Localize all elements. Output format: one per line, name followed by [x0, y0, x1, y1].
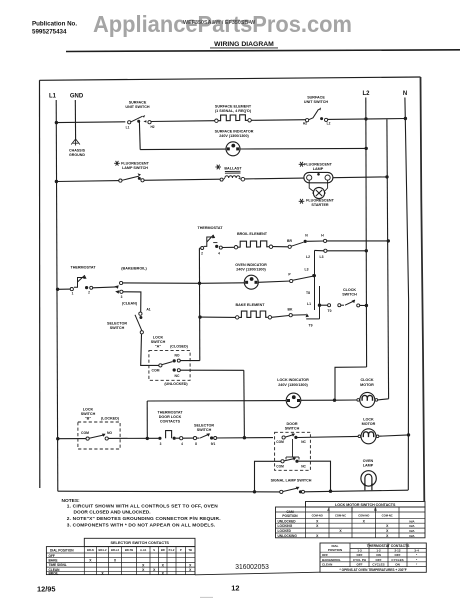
svg-text:L2: L2: [362, 91, 370, 97]
wire lock A NO to bake vertical: [180, 360, 199, 362]
clock switch contacts: [328, 304, 331, 307]
wire to clock motor: [336, 399, 357, 401]
door lock contact 8: [193, 437, 196, 440]
signal lamp switch: [280, 490, 283, 493]
svg-text:SELECTOR: SELECTOR: [107, 322, 127, 326]
svg-text:N/A: N/A: [409, 524, 415, 528]
svg-text:UNIT SWITCH: UNIT SWITCH: [125, 105, 150, 109]
svg-text:LOCK MOTOR SWITCH CONTACTS: LOCK MOTOR SWITCH CONTACTS: [335, 503, 396, 507]
svg-text:1-3: 1-3: [357, 549, 362, 553]
svg-text:OFF: OFF: [322, 553, 328, 557]
svg-text:DIAL POSITION: DIAL POSITION: [50, 548, 74, 552]
svg-text:1: 1: [72, 292, 74, 296]
wire neutral branch vertical: [387, 119, 389, 399]
svg-text:SURFACE INDICATOR: SURFACE INDICATOR: [215, 130, 254, 134]
svg-text:FLUORESCENT: FLUORESCENT: [304, 163, 332, 167]
wire clock switch line: [320, 304, 328, 306]
fluorescent lamp: [304, 172, 333, 182]
wire GND drop: [74, 100, 76, 139]
footer smudge: [200, 596, 213, 598]
door switch internal link: [292, 439, 294, 457]
selector switch blade bottom: [197, 437, 200, 439]
svg-text:BK: BK: [288, 307, 293, 311]
thermostat door lock contacts: [158, 437, 161, 440]
svg-text:BR-L2: BR-L2: [99, 548, 107, 552]
svg-text:POSITION: POSITION: [282, 514, 298, 518]
svg-text:N/A: N/A: [409, 519, 415, 523]
svg-text:BR: BR: [287, 239, 292, 243]
fluorescent starter label: [299, 200, 305, 202]
resistor surface element: [215, 119, 218, 122]
svg-text:OFF: OFF: [395, 553, 401, 557]
svg-text:BR-L3: BR-L3: [111, 548, 119, 552]
junction L1 top bus: [55, 121, 58, 124]
svg-text:L2: L2: [327, 122, 331, 126]
svg-text:NC: NC: [175, 374, 180, 378]
svg-text:THERMOSTAT: THERMOSTAT: [197, 226, 223, 230]
svg-text:SIGNAL LAMP SWITCH: SIGNAL LAMP SWITCH: [271, 479, 312, 483]
svg-text:L1: L1: [307, 302, 311, 306]
fluorescent starter: [313, 187, 324, 198]
svg-text:BROIL ELEMENT: BROIL ELEMENT: [237, 232, 268, 236]
svg-text:SWITCH: SWITCH: [110, 326, 125, 330]
svg-text:2-12: 2-12: [394, 549, 400, 553]
wire selector jumper 1: [314, 250, 316, 310]
svg-text:NO: NO: [107, 431, 112, 435]
svg-text:H2: H2: [150, 125, 154, 129]
svg-text:OVEN INDICATOR: OVEN INDICATOR: [235, 263, 267, 267]
wire door switch lower right: [299, 461, 331, 491]
svg-text:COM: COM: [81, 431, 89, 435]
ballast label: [215, 166, 221, 168]
svg-text:SURFACE ELEMENT: SURFACE ELEMENT: [215, 105, 252, 109]
svg-text:4: 4: [181, 442, 183, 446]
border frame top: [40, 77, 421, 80]
wire surface indicator line: [140, 148, 226, 151]
svg-text:T9: T9: [309, 324, 313, 328]
svg-text:12: 12: [231, 584, 239, 593]
svg-text:SWITCH: SWITCH: [197, 428, 212, 432]
svg-text:LOCK: LOCK: [153, 336, 164, 340]
svg-text:OVEN: OVEN: [363, 459, 374, 463]
table thermostat contacts: [320, 543, 426, 572]
svg-text:THERMOSTAT: THERMOSTAT: [157, 411, 183, 415]
svg-text:FLUORESCENT: FLUORESCENT: [121, 162, 149, 166]
svg-text:FLUORESCENT: FLUORESCENT: [306, 199, 334, 203]
fluorescent lamp label: [299, 163, 305, 165]
svg-text:THERMOSTAT CONTACTS: THERMOSTAT CONTACTS: [367, 544, 410, 548]
svg-text:COM-NO: COM-NO: [358, 514, 369, 518]
svg-text:N/A: N/A: [409, 529, 415, 533]
svg-text:COM: COM: [276, 465, 284, 469]
svg-text:DOOR: DOOR: [286, 422, 297, 426]
lamp surface indicator: [226, 142, 240, 156]
svg-text:ON: ON: [395, 563, 400, 567]
svg-text:* OPENS AT OVEN TEMPERATURES: * OPENS AT OVEN TEMPERATURES + 230°F: [339, 568, 406, 572]
svg-text:DOOR LOCK: DOOR LOCK: [159, 415, 182, 419]
switch surface unit 1: [128, 121, 131, 124]
svg-text:DOOR CLOSED AND UNLOCKED.: DOOR CLOSED AND UNLOCKED.: [74, 510, 151, 516]
svg-text:STARTER: STARTER: [311, 203, 328, 207]
wire thermostat2 vertical: [198, 248, 200, 360]
junction bus1 at N: [404, 117, 407, 120]
svg-text:UNLOCKING: UNLOCKING: [278, 534, 298, 538]
svg-text:MOTOR: MOTOR: [360, 383, 374, 387]
svg-text:CHASSIS: CHASSIS: [69, 149, 86, 153]
junction bake-broil tap: [115, 285, 119, 289]
door switch lower contacts: [281, 460, 284, 463]
title underline: [210, 47, 278, 49]
wire broil element line: [222, 246, 234, 248]
svg-text:CLOCK: CLOCK: [343, 288, 356, 292]
svg-text:H2: H2: [303, 122, 307, 126]
wire L2 jog to lock indicator line: [335, 367, 367, 400]
svg-text:L2: L2: [306, 255, 310, 259]
selector contact clean: [115, 290, 119, 294]
svg-text:SURFACE: SURFACE: [129, 101, 147, 105]
svg-text:3. COMPONENTS WITH * DO NOT A: 3. COMPONENTS WITH * DO NOT APPEAR ON AL…: [67, 522, 216, 528]
svg-text:COM-NC: COM-NC: [335, 514, 346, 518]
svg-text:316002053: 316002053: [235, 562, 268, 571]
svg-text:BROIL: BROIL: [49, 572, 59, 576]
svg-text:TIME SIGNL: TIME SIGNL: [49, 563, 67, 567]
door lock contact 4: [180, 437, 183, 440]
wire fluorescent bus: [56, 180, 120, 183]
svg-text:POSITION: POSITION: [328, 548, 342, 552]
svg-text:SWITCH: SWITCH: [342, 292, 357, 296]
wire broil line to neutral branch: [327, 240, 389, 242]
svg-text:LAMP: LAMP: [363, 463, 374, 467]
wire bus3 right: [123, 282, 200, 284]
lock switch B contacts: [86, 437, 89, 440]
inductor ballast: [220, 178, 223, 181]
svg-text:N: N: [403, 91, 407, 97]
svg-text:BALLAST: BALLAST: [224, 167, 242, 171]
svg-text:L3: L3: [320, 255, 324, 259]
switch surface unit 2: [306, 119, 309, 122]
svg-text:NC: NC: [301, 465, 306, 469]
junction B line door lock vertical: [243, 436, 246, 439]
svg-text:WIRING DIAGRAM: WIRING DIAGRAM: [214, 41, 274, 48]
wire bus3 left: [58, 288, 72, 290]
wire L1 top bus: [56, 121, 125, 124]
svg-text:CONTACTS: CONTACTS: [160, 420, 181, 424]
lamp lock indicator: [286, 393, 301, 408]
svg-text:CYCL PH: CYCL PH: [353, 558, 366, 562]
wire bake element line: [200, 316, 235, 318]
svg-text:Publication No.: Publication No.: [32, 20, 77, 27]
junction lock motor line at N: [407, 433, 410, 436]
svg-text:L3: L3: [305, 268, 309, 272]
svg-text:BAKE/BROIL: BAKE/BROIL: [322, 558, 341, 562]
svg-text:LOCK: LOCK: [83, 408, 94, 412]
svg-text:2: 2: [201, 251, 203, 255]
svg-text:SELECTOR: SELECTOR: [194, 424, 214, 428]
svg-text:OFF: OFF: [376, 558, 382, 562]
svg-text:LAMP SWITCH: LAMP SWITCH: [122, 166, 148, 170]
svg-text:BAKE: BAKE: [49, 559, 58, 563]
svg-text:3: 3: [121, 295, 123, 299]
selector contact L2 L3: [324, 249, 327, 252]
svg-text:8: 8: [195, 442, 197, 446]
wire bus3 mid: [93, 286, 117, 289]
wire clean branch: [123, 292, 141, 312]
wire starter connections: [309, 180, 313, 191]
border frame right: [421, 77, 425, 501]
wire selector jumper 2: [319, 286, 321, 319]
selector contact bake BK: [289, 314, 292, 317]
svg-text:3-4: 3-4: [414, 549, 419, 553]
wire clock switch to L2: [360, 304, 367, 306]
junction bottom door left: [253, 490, 256, 493]
svg-text:S: S: [153, 548, 155, 552]
selector contact bake-broil: [120, 281, 123, 284]
wire selector line2: [315, 249, 325, 251]
svg-text:(UNLOCKED): (UNLOCKED): [164, 382, 188, 386]
svg-text:NC: NC: [301, 440, 306, 444]
svg-text:OFF: OFF: [357, 553, 363, 557]
svg-text:COM: COM: [276, 440, 284, 444]
wire clock motor to neutral branch: [378, 399, 389, 400]
switch fluorescent lamp switch: [119, 179, 122, 182]
svg-text:COM: COM: [152, 369, 160, 373]
svg-text:BR: BR: [161, 548, 165, 552]
svg-text:3: 3: [160, 442, 162, 446]
wire L2 vertical bus: [365, 98, 368, 368]
header rule: [66, 50, 460, 52]
svg-text:L1: L1: [126, 126, 130, 130]
svg-text:CYCLES: CYCLES: [372, 563, 384, 567]
junction bus2 at neutral branch: [385, 175, 388, 178]
svg-text:COM-NC: COM-NC: [382, 514, 393, 518]
selector contact P: [290, 279, 293, 282]
wire door switch lower left: [255, 461, 282, 492]
junction B line at L1: [56, 437, 59, 440]
junction bus3 thermostat2 vertical: [198, 282, 201, 285]
svg-text:SELECTOR SWITCH CONTACTS: SELECTOR SWITCH CONTACTS: [110, 541, 169, 545]
selector blade to lock A: [135, 315, 142, 331]
svg-text:12/95: 12/95: [37, 584, 56, 593]
wire clean branch to lock switch A: [141, 334, 159, 365]
svg-text:OFF: OFF: [357, 563, 363, 567]
svg-text:L1: L1: [49, 94, 57, 100]
svg-text:(1 SIGNAL, 4 REQ'D): (1 SIGNAL, 4 REQ'D): [215, 109, 252, 113]
svg-text:LOCKING: LOCKING: [278, 524, 293, 528]
junction bottom door right: [329, 490, 332, 493]
junction bus3 at L1: [56, 288, 59, 291]
svg-text:"A": "A": [155, 344, 161, 348]
svg-text:A-A1: A-A1: [140, 548, 147, 552]
svg-text:CLOCK: CLOCK: [360, 378, 373, 382]
table selector switch contacts: [46, 547, 195, 575]
svg-text:BR-TB: BR-TB: [125, 548, 133, 552]
oven lamp: [361, 471, 376, 486]
wire bottom return line: [58, 490, 281, 493]
junction broil line neutral branch: [387, 239, 390, 242]
selector contact broil N H: [288, 245, 291, 248]
lock motor: [361, 429, 376, 444]
wire lock indicator line: [147, 400, 286, 402]
svg-text:WEF350SA&W / EF350SB-W: WEF350SA&W / EF350SB-W: [183, 20, 256, 26]
svg-text:BAKE ELEMENT: BAKE ELEMENT: [235, 303, 265, 307]
svg-text:240V (1300/1300): 240V (1300/1300): [236, 268, 266, 272]
svg-text:CLEAN: CLEAN: [322, 563, 332, 567]
door switch dashed box: [275, 432, 311, 470]
junction B line lock indicator vertical: [146, 437, 149, 440]
thermostat 2: [201, 247, 204, 250]
lock switch A contacts: [159, 364, 162, 367]
table lock motor switch contacts: [306, 502, 426, 508]
svg-text:GND: GND: [70, 94, 84, 100]
junction bake line: [198, 315, 201, 318]
svg-text:MOTOR: MOTOR: [362, 422, 376, 426]
svg-text:OFF: OFF: [49, 554, 55, 558]
svg-text:1-2: 1-2: [376, 549, 381, 553]
resistor broil element: [234, 246, 237, 249]
svg-text:LOCKED: LOCKED: [278, 529, 292, 533]
svg-text:P: P: [180, 548, 182, 552]
svg-text:LAMP: LAMP: [313, 167, 324, 171]
svg-text:P-L2: P-L2: [169, 548, 175, 552]
junction jumper2 clock line: [318, 304, 321, 307]
svg-text:SURFACE: SURFACE: [307, 96, 325, 100]
svg-text:UNLOCKED: UNLOCKED: [278, 519, 297, 523]
svg-text:NOTES:: NOTES:: [62, 498, 81, 504]
wire lock A NC to door lock vertical: [180, 369, 243, 371]
lamp oven indicator: [244, 275, 258, 289]
fluorescent lamp switch label: [114, 162, 120, 164]
border frame left: [39, 80, 41, 488]
selector contact A1 upper: [139, 312, 142, 315]
svg-text:SWITCH: SWITCH: [285, 427, 300, 431]
svg-text:4: 4: [218, 251, 220, 255]
junction bus1 at L2: [364, 117, 367, 120]
svg-text:5995275434: 5995275434: [32, 28, 67, 35]
svg-text:2. NOTE"X" DENOTES GROUNDING: 2. NOTE"X" DENOTES GROUNDING CONNECTOR P…: [67, 516, 221, 522]
svg-text:"B": "B": [85, 416, 91, 420]
svg-text:T0: T0: [328, 309, 332, 313]
svg-text:9/1: 9/1: [211, 442, 216, 446]
svg-text:NO: NO: [174, 353, 179, 357]
wire switch1 to indicator drop: [138, 122, 141, 150]
svg-text:TB: TB: [188, 548, 192, 552]
svg-text:A1: A1: [146, 308, 150, 312]
svg-text:BR-N: BR-N: [87, 548, 94, 552]
svg-text:SWITCH: SWITCH: [81, 412, 96, 416]
svg-text:(CLOSED): (CLOSED): [170, 344, 189, 348]
junction clock line at L2: [365, 304, 368, 307]
svg-text:T8: T8: [306, 291, 310, 295]
wire L1 vertical bus: [56, 100, 58, 491]
svg-text:N/A: N/A: [409, 534, 415, 538]
junction lock indicator L2 drop: [333, 399, 336, 402]
lock switch B dashed box: [78, 422, 120, 449]
svg-text:SWITCH: SWITCH: [151, 340, 166, 344]
svg-text:(LOCKED): (LOCKED): [101, 416, 120, 420]
svg-text:240V (1300/1300): 240V (1300/1300): [278, 383, 308, 387]
svg-text:1. CIRCUIT SHOWN WITH ALL CON: 1. CIRCUIT SHOWN WITH ALL CONTROLS SET T…: [67, 504, 218, 510]
junction bus2 at L1: [55, 180, 58, 183]
svg-text:(CLEAN): (CLEAN): [122, 302, 138, 306]
junction indicator line at L2: [365, 147, 368, 150]
ground chassis symbol: [71, 139, 75, 145]
svg-text:GROUND: GROUND: [69, 153, 85, 157]
table bottom extension line: [195, 572, 320, 575]
svg-text:(BAKE/BROIL): (BAKE/BROIL): [121, 267, 147, 271]
svg-text:THERMOSTAT: THERMOSTAT: [70, 266, 96, 270]
svg-text:240V (1300/1300): 240V (1300/1300): [219, 134, 249, 138]
wire lock A NC vertical: [243, 370, 246, 437]
resistor bake element: [236, 316, 239, 319]
wire lock indicator vertical: [146, 401, 148, 439]
svg-text:2: 2: [88, 291, 90, 295]
thermostat 1: [70, 288, 73, 291]
svg-text:UNIT SWITCH: UNIT SWITCH: [304, 100, 329, 104]
svg-text:ON: ON: [376, 553, 381, 557]
wire B line segments: [58, 438, 86, 440]
svg-text:CYCLES: CYCLES: [391, 558, 403, 562]
svg-text:LOCK INDICATOR: LOCK INDICATOR: [277, 378, 309, 382]
lock switch A dashed box: [149, 351, 190, 381]
door switch upper contacts: [282, 436, 285, 439]
junction line2 at L2: [365, 249, 368, 252]
svg-text:COM-NO: COM-NO: [312, 514, 323, 518]
wire N vertical bus: [405, 98, 409, 491]
svg-text:LOCK: LOCK: [363, 417, 374, 421]
clock motor: [360, 392, 375, 407]
